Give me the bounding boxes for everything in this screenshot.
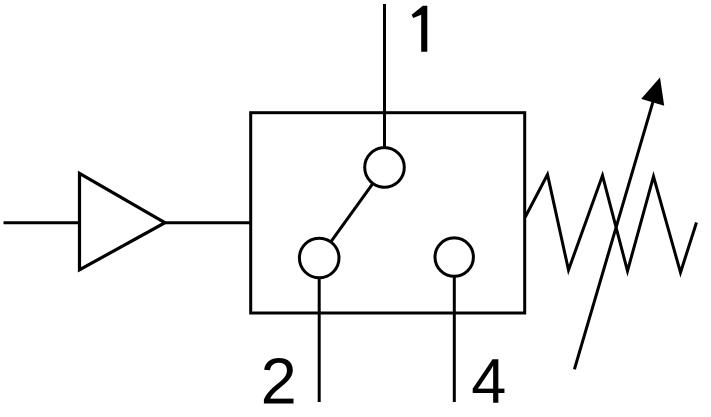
wire pin 2: [318, 258, 321, 402]
svg-text:2: 2: [261, 345, 297, 417]
switch box U1: [251, 113, 525, 313]
variable resistor R1 zigzag: [525, 175, 697, 273]
switch contact node 1: [365, 148, 405, 188]
amplifier buffer A1: [80, 173, 166, 269]
wire pin 4: [453, 257, 456, 402]
resistor arrow head: [641, 77, 664, 105]
switch lever: [319, 167, 384, 258]
input wire: [4, 221, 80, 224]
wire amp output to box: [165, 221, 252, 224]
wire pin 1: [383, 4, 386, 167]
label 1: [412, 6, 428, 52]
switch contact node 4: [435, 238, 473, 276]
svg-text:4: 4: [471, 347, 506, 417]
resistor arrow shaft: [574, 100, 653, 369]
switch contact node 2: [299, 238, 339, 278]
